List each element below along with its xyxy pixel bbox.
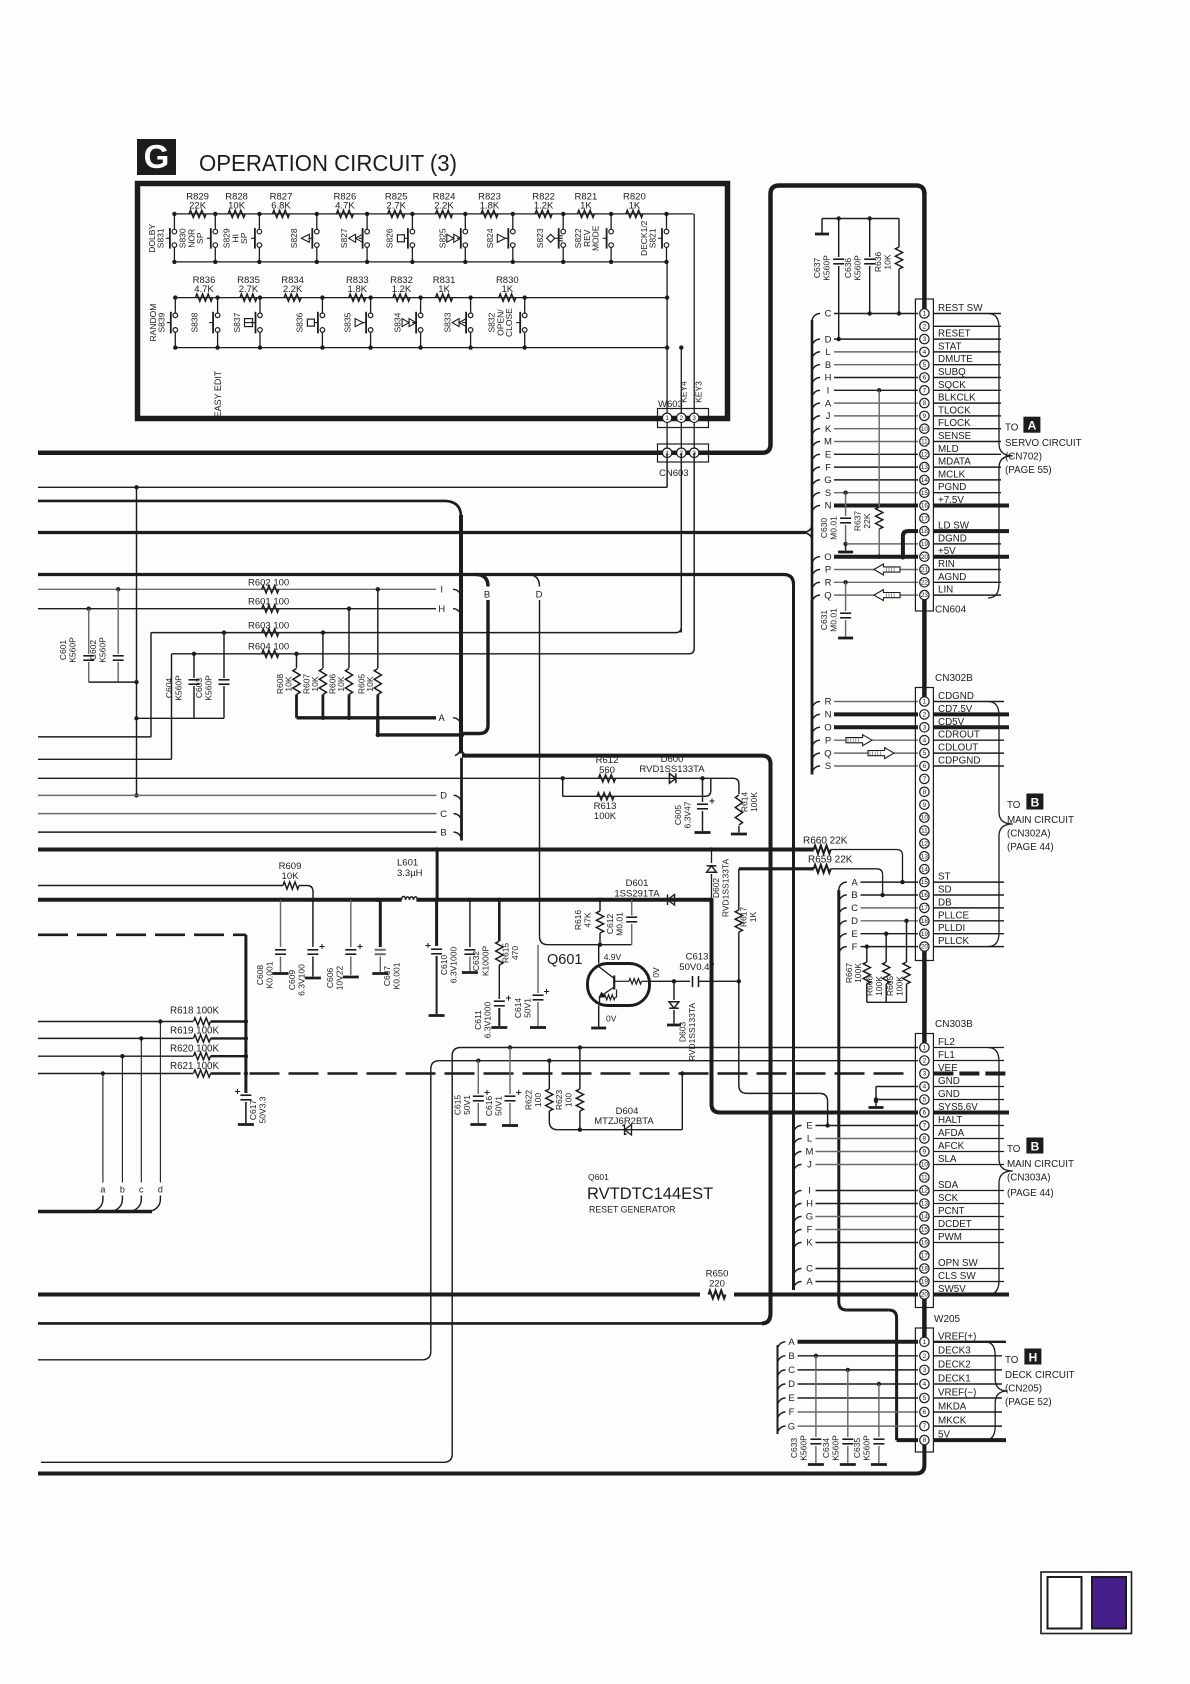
wire CN303B pin6 label SYS5.6V xyxy=(933,1102,1009,1113)
resistor R665 xyxy=(885,921,910,1003)
wire R604 line xyxy=(172,453,695,656)
svg-text:4: 4 xyxy=(923,1381,927,1388)
resistor R613 xyxy=(594,793,617,822)
wire CN303B pin20 label SW5V xyxy=(933,1284,1009,1295)
wire CN604 pin20 +5V thick xyxy=(834,555,918,559)
wire L601 rail thick right xyxy=(278,898,713,902)
wire CN303B pin8 line xyxy=(816,1138,919,1140)
wire C613 to R617 xyxy=(699,979,742,983)
switch S834 xyxy=(393,295,423,349)
resistor R615 xyxy=(496,900,520,965)
svg-text:13: 13 xyxy=(921,853,929,860)
svg-text:PWM: PWM xyxy=(938,1232,962,1243)
svg-text:23: 23 xyxy=(921,592,929,599)
svg-text:R616: R616 xyxy=(573,910,583,931)
svg-text:H: H xyxy=(825,373,832,384)
wire vertical x136 xyxy=(134,487,138,797)
svg-text:R659 22K: R659 22K xyxy=(808,855,853,866)
svg-text:S830: S830 xyxy=(177,228,187,248)
resistor R614 xyxy=(731,784,759,834)
wire CN604 pin16 +7.5V thick xyxy=(834,504,918,508)
switch S828 xyxy=(289,212,319,264)
wire CN303B pin16 label PWM xyxy=(933,1232,1004,1243)
svg-text:3: 3 xyxy=(923,336,927,343)
capacitor C636 xyxy=(843,219,875,316)
wire CN303B pin5 label GND xyxy=(933,1089,1004,1100)
switch S836 xyxy=(294,295,324,349)
resistor R618 xyxy=(38,1006,246,1026)
diode D604 zener xyxy=(594,1106,654,1135)
svg-text:SERVO CIRCUIT: SERVO CIRCUIT xyxy=(1005,438,1082,449)
svg-text:K0.001: K0.001 xyxy=(265,961,275,988)
svg-text:5: 5 xyxy=(923,362,927,369)
wire abcd bundle xyxy=(38,1210,152,1213)
svg-text:SD: SD xyxy=(938,885,952,896)
node B hook W205 xyxy=(778,1351,795,1364)
wire KEY lower return xyxy=(38,1322,762,1325)
wire CN302B pin3 CD5V left thick xyxy=(834,725,918,729)
node D hook CN604 xyxy=(812,334,832,347)
svg-text:R: R xyxy=(825,578,832,589)
svg-text:B: B xyxy=(1031,796,1040,810)
svg-text:6: 6 xyxy=(923,375,927,382)
ground top xyxy=(815,219,829,235)
wire CN303B pin10 label SLA xyxy=(933,1154,1004,1165)
svg-text:6: 6 xyxy=(923,1110,927,1117)
switch S827 xyxy=(339,212,369,264)
svg-text:21: 21 xyxy=(921,567,929,574)
switch S835 xyxy=(343,295,373,349)
svg-text:4.7K: 4.7K xyxy=(335,201,355,212)
svg-text:A: A xyxy=(806,1277,813,1288)
node J hook CN303B xyxy=(794,1160,813,1173)
svg-text:b: b xyxy=(120,1185,125,1195)
capacitor C610 xyxy=(425,850,458,1016)
svg-text:K560P: K560P xyxy=(68,637,78,663)
svg-text:DECK3: DECK3 xyxy=(938,1345,971,1356)
svg-text:R620 100K: R620 100K xyxy=(170,1044,219,1055)
svg-text:(CN302A): (CN302A) xyxy=(1007,829,1051,840)
wire CN604 pin19 line xyxy=(846,543,918,545)
node F hook CN302B lower xyxy=(839,942,858,955)
resistor R619 xyxy=(38,1026,246,1043)
svg-text:PLLCE: PLLCE xyxy=(938,910,970,921)
svg-text:TLOCK: TLOCK xyxy=(938,405,971,416)
svg-text:19: 19 xyxy=(921,931,929,938)
node R hook CN604 xyxy=(812,578,832,591)
svg-text:L601: L601 xyxy=(397,858,418,869)
node B hook CN604 xyxy=(812,360,831,373)
svg-text:C636: C636 xyxy=(843,258,853,279)
node I hook CN604 xyxy=(812,386,829,399)
wire CN303B pin2 label FL1 xyxy=(933,1050,1004,1061)
wire CN604 pin23 label LIN xyxy=(933,585,1001,596)
svg-text:SYS5.6V: SYS5.6V xyxy=(938,1102,978,1113)
label CN604 xyxy=(935,605,967,616)
svg-text:DECK1: DECK1 xyxy=(938,1374,971,1385)
wire CN604 pin22 label AGND xyxy=(933,572,1001,583)
svg-text:R618 100K: R618 100K xyxy=(170,1006,219,1017)
wire CN604 bundle horiz xyxy=(38,527,812,539)
svg-text:D: D xyxy=(788,1379,795,1390)
svg-text:100K: 100K xyxy=(594,811,617,822)
svg-text:I: I xyxy=(808,1186,811,1197)
svg-text:S823: S823 xyxy=(535,228,545,248)
resistor R660 xyxy=(803,836,905,885)
svg-text:MODE: MODE xyxy=(591,225,601,251)
wire CN303B pin3 label VEE xyxy=(933,1063,1009,1074)
svg-text:c: c xyxy=(139,1185,144,1195)
connector W205 xyxy=(915,1328,933,1452)
svg-text:MCLK: MCLK xyxy=(938,469,966,480)
svg-text:M0.01: M0.01 xyxy=(615,912,625,936)
svg-text:R621 100K: R621 100K xyxy=(170,1061,219,1072)
label TO B MAIN CIRCUIT CN302A xyxy=(1007,794,1074,854)
wire row2 bottom rail xyxy=(175,347,667,349)
node N hook CN604 xyxy=(812,501,832,514)
node E hook CN604 xyxy=(812,450,831,463)
wire SYS5.6V vertical thick xyxy=(712,900,721,1113)
svg-text:DGND: DGND xyxy=(938,533,967,544)
node B branch top xyxy=(476,575,490,601)
svg-text:D: D xyxy=(825,334,832,345)
wire FL1 return vertical xyxy=(38,1069,431,1360)
resistor R832 xyxy=(390,275,413,301)
svg-text:1.2K: 1.2K xyxy=(534,201,554,212)
svg-text:4: 4 xyxy=(923,349,927,356)
wire W205 pin8 label 5V xyxy=(933,1430,1006,1441)
diode D600 xyxy=(639,754,705,783)
node A hook CN604 xyxy=(812,398,832,411)
svg-text:18: 18 xyxy=(921,528,929,535)
svg-text:17: 17 xyxy=(921,905,929,912)
svg-text:C634: C634 xyxy=(821,1438,831,1459)
svg-text:0V: 0V xyxy=(606,1014,617,1024)
svg-text:B: B xyxy=(788,1351,794,1362)
resistor R622 xyxy=(524,1061,558,1130)
brace A xyxy=(988,314,1013,599)
svg-text:K560P: K560P xyxy=(204,675,214,701)
svg-text:22K: 22K xyxy=(189,201,207,212)
wire B line lower xyxy=(38,831,437,833)
wire W205 pin1 VREF+ left thick xyxy=(798,1340,919,1344)
wire CN604 spine xyxy=(811,320,814,775)
svg-text:50V1: 50V1 xyxy=(462,1095,472,1115)
wire CN302B pin20 label PLLCK xyxy=(933,936,1004,947)
svg-text:1.8K: 1.8K xyxy=(348,284,368,295)
wire VEE dashed line xyxy=(211,1071,911,1075)
wire CN604 pin9 line xyxy=(834,415,918,417)
wire CN302B pin17 label DB xyxy=(933,897,1004,908)
wire CN302B pin18 PLLCE left xyxy=(861,919,919,923)
capacitor C608 xyxy=(255,900,289,989)
connector CN303B xyxy=(915,1034,933,1308)
capacitor C630 xyxy=(819,493,851,546)
svg-text:(PAGE 44): (PAGE 44) xyxy=(1007,1188,1054,1199)
svg-text:L: L xyxy=(825,347,830,358)
svg-text:1K: 1K xyxy=(629,201,641,212)
svg-text:MKDA: MKDA xyxy=(938,1402,967,1413)
node D hook W205 xyxy=(778,1379,796,1392)
wire CN303B pin14 label PCNT xyxy=(933,1206,1004,1217)
wire CN302B pin5 CDLOUT left xyxy=(834,752,918,754)
node L hook CN604 xyxy=(812,347,831,360)
node P hook CN302B xyxy=(812,735,831,748)
node F hook CN303B xyxy=(794,1225,813,1238)
svg-text:S836: S836 xyxy=(294,312,304,332)
node A hook W205 xyxy=(778,1337,796,1350)
svg-text:S838: S838 xyxy=(190,312,200,332)
svg-text:50V1: 50V1 xyxy=(523,998,533,1018)
svg-text:RVD1SS133TA: RVD1SS133TA xyxy=(639,764,705,775)
switch S824 xyxy=(485,212,515,264)
svg-text:C635: C635 xyxy=(852,1438,862,1459)
capacitor C634 xyxy=(821,1370,856,1465)
svg-text:CD5V: CD5V xyxy=(938,717,965,728)
svg-text:DMUTE: DMUTE xyxy=(938,354,973,365)
node K hook CN604 xyxy=(812,424,832,437)
wire C603 C604 bottom rail xyxy=(137,717,225,719)
svg-text:2.7K: 2.7K xyxy=(386,201,406,212)
svg-text:100: 100 xyxy=(533,1093,543,1107)
svg-text:2: 2 xyxy=(923,1058,927,1065)
brace H W205 xyxy=(985,1342,1008,1440)
wire R block vertical thick xyxy=(244,935,248,1076)
svg-text:C: C xyxy=(851,903,858,914)
svg-text:12: 12 xyxy=(921,1188,929,1195)
resistor R605 xyxy=(356,589,381,718)
svg-text:TO: TO xyxy=(1005,423,1019,434)
svg-text:DECK CIRCUIT: DECK CIRCUIT xyxy=(1005,1370,1075,1381)
svg-text:E: E xyxy=(825,450,831,461)
node M hook CN303B xyxy=(794,1147,814,1160)
wire CN303B pin18 label OPN SW xyxy=(933,1258,1004,1269)
svg-text:K: K xyxy=(825,424,832,435)
switch S838 xyxy=(190,295,220,349)
svg-text:CN302B: CN302B xyxy=(935,673,973,684)
resistor R636 xyxy=(873,219,903,316)
node a drop xyxy=(91,1074,106,1212)
svg-text:C611: C611 xyxy=(473,1010,483,1030)
wire CN303B to W205 thick xyxy=(922,1299,927,1342)
node D hook lower xyxy=(440,791,461,804)
svg-text:Q: Q xyxy=(824,590,831,601)
node H hook xyxy=(438,604,461,617)
wire CN603 KEY3 net thick xyxy=(38,186,924,453)
svg-text:11: 11 xyxy=(921,439,928,446)
svg-text:R604 100: R604 100 xyxy=(248,642,289,653)
svg-text:AFCK: AFCK xyxy=(938,1141,965,1152)
wire CN302B pin4 CDROUT left xyxy=(834,739,918,741)
svg-text:SUBQ: SUBQ xyxy=(938,367,966,378)
svg-text:4: 4 xyxy=(923,1084,927,1091)
wire net B vertical xyxy=(462,600,489,734)
svg-text:C608: C608 xyxy=(255,965,265,986)
wire W205 pin6 MKDA left xyxy=(798,1411,919,1413)
svg-text:S834: S834 xyxy=(393,312,403,332)
wire CN604 pin15 line S xyxy=(834,491,918,495)
svg-text:TO: TO xyxy=(1007,800,1021,811)
svg-text:6.8K: 6.8K xyxy=(271,201,291,212)
svg-text:20: 20 xyxy=(921,554,929,561)
node I hook xyxy=(440,585,461,598)
svg-text:22: 22 xyxy=(921,579,929,586)
wire W205 pin6 label MKDA xyxy=(933,1402,1002,1413)
svg-text:14: 14 xyxy=(921,477,929,484)
svg-text:C612: C612 xyxy=(605,914,615,935)
svg-text:B: B xyxy=(825,360,831,371)
wire CN604 pin14 line xyxy=(834,479,918,481)
svg-text:BLKCLK: BLKCLK xyxy=(938,393,976,404)
arrow RIN xyxy=(874,564,900,575)
svg-text:C632: C632 xyxy=(471,951,481,972)
wire CN302B pin5 label CDLOUT xyxy=(933,743,1004,754)
wire C601 C602 bottom rail xyxy=(89,680,139,684)
resistor R616 xyxy=(573,900,604,945)
switch S823 xyxy=(535,212,565,264)
node E hook CN302B lower xyxy=(839,929,858,942)
svg-text:C: C xyxy=(788,1365,795,1376)
svg-text:17: 17 xyxy=(921,1253,929,1260)
wire CN302B pin15 ST left xyxy=(861,881,919,883)
svg-text:A: A xyxy=(825,398,832,409)
svg-text:CDLOUT: CDLOUT xyxy=(938,743,978,754)
svg-text:R601 100: R601 100 xyxy=(248,597,289,608)
svg-text:K560P: K560P xyxy=(799,1435,809,1461)
resistor R821 xyxy=(575,192,598,218)
wire CN303B pin6 SYS5.6V thick xyxy=(720,1111,918,1115)
svg-text:20: 20 xyxy=(921,944,929,951)
label KEY3 xyxy=(694,381,704,403)
svg-text:C614: C614 xyxy=(513,998,523,1019)
connector W603 xyxy=(658,409,709,428)
switch S830 xyxy=(177,212,217,264)
svg-text:15: 15 xyxy=(921,879,929,886)
svg-text:E: E xyxy=(851,929,857,940)
resistor R606 xyxy=(328,609,353,718)
svg-text:SCK: SCK xyxy=(938,1193,959,1204)
wire W205 pin4 DECK1 left xyxy=(798,1382,919,1386)
label CN603 xyxy=(659,468,689,479)
svg-text:R615: R615 xyxy=(501,943,511,964)
resistor R827 xyxy=(270,192,293,218)
resistor R826 xyxy=(334,192,357,218)
connector CN604 xyxy=(915,299,933,611)
svg-text:G: G xyxy=(806,1212,813,1223)
svg-text:5: 5 xyxy=(923,750,927,757)
svg-text:1K: 1K xyxy=(501,284,513,295)
svg-text:+5V: +5V xyxy=(938,546,956,557)
node c drop xyxy=(129,1038,144,1211)
wire CN302B pin4 label CDROUT xyxy=(933,730,1004,741)
wire CN303B pin15 label DCDET xyxy=(933,1219,1004,1230)
wire W205 pin5 label VREF(−) xyxy=(933,1388,1002,1399)
svg-text:A: A xyxy=(788,1337,795,1348)
wire CN303B pin18 line xyxy=(816,1268,919,1270)
wire CN604 pin15 label PGND xyxy=(933,482,1001,493)
svg-text:B: B xyxy=(1031,1140,1040,1154)
capacitor C633 xyxy=(789,1356,824,1465)
svg-text:I: I xyxy=(827,386,830,397)
svg-text:R617: R617 xyxy=(739,907,749,928)
svg-text:S831: S831 xyxy=(155,228,165,248)
svg-text:1K: 1K xyxy=(438,284,450,295)
ground C630 xyxy=(838,544,853,552)
wire CN303B pin13 line xyxy=(816,1203,919,1205)
svg-text:1.2K: 1.2K xyxy=(392,284,412,295)
svg-text:AFDA: AFDA xyxy=(938,1128,965,1139)
wire W205 pin7 label MKCK xyxy=(933,1416,1002,1427)
node A hook CN303B xyxy=(794,1277,814,1290)
svg-text:SENSE: SENSE xyxy=(938,431,972,442)
node F hook CN604 xyxy=(812,462,831,475)
svg-text:2: 2 xyxy=(923,712,927,719)
svg-text:C609: C609 xyxy=(287,970,297,991)
wire CN604 pin5 line xyxy=(834,364,918,366)
svg-text:7: 7 xyxy=(923,387,927,394)
wire CN604 pin12 line xyxy=(834,453,918,455)
svg-text:B: B xyxy=(484,590,490,601)
svg-text:1: 1 xyxy=(923,1339,927,1346)
svg-text:F: F xyxy=(789,1407,795,1418)
resistor R833 xyxy=(346,275,369,301)
wire CN302B to CN303B thick xyxy=(922,951,927,1048)
svg-text:K: K xyxy=(806,1238,813,1249)
label CN302B xyxy=(935,673,973,684)
switch S839 xyxy=(148,295,178,349)
svg-text:HALT: HALT xyxy=(938,1115,962,1126)
node E hook W205 xyxy=(778,1393,795,1406)
svg-text:C617: C617 xyxy=(248,1100,258,1121)
svg-text:100: 100 xyxy=(564,1093,574,1107)
svg-text:C633: C633 xyxy=(789,1438,799,1459)
svg-text:CLS SW: CLS SW xyxy=(938,1271,976,1282)
capacitor C615 xyxy=(453,1061,490,1125)
wire CN302B pin19 PLLDI left xyxy=(861,932,919,936)
svg-text:6.3V1000: 6.3V1000 xyxy=(449,947,459,984)
svg-text:3.3µH: 3.3µH xyxy=(397,868,423,879)
svg-text:15: 15 xyxy=(921,1227,929,1234)
svg-text:S829: S829 xyxy=(221,228,231,248)
wire CN604 pin1 line xyxy=(834,313,918,315)
svg-text:SQCK: SQCK xyxy=(938,380,966,391)
node E hook CN303B xyxy=(794,1121,813,1134)
svg-text:KEY3: KEY3 xyxy=(694,381,704,403)
svg-text:R637: R637 xyxy=(853,511,863,532)
node M hook CN604 xyxy=(812,437,832,450)
page label G xyxy=(137,138,176,175)
wire top cable bundle vertical xyxy=(455,515,467,841)
node C hook CN302B lower xyxy=(839,903,858,916)
resistor R667 xyxy=(844,947,870,1003)
wire CN303B pin5 GND left xyxy=(876,1099,918,1101)
resistor R666 xyxy=(865,934,890,1003)
node d drop xyxy=(148,1022,163,1212)
resistor R637 xyxy=(853,390,883,559)
svg-text:C602: C602 xyxy=(88,640,98,661)
svg-text:H: H xyxy=(1029,1351,1038,1365)
svg-text:S821: S821 xyxy=(648,228,658,248)
svg-text:J: J xyxy=(807,1160,812,1171)
wire R659 line xyxy=(739,867,814,870)
svg-text:4.7K: 4.7K xyxy=(194,284,214,295)
svg-text:14: 14 xyxy=(921,866,929,873)
wire CN303B pin10 line xyxy=(816,1164,919,1166)
svg-text:L: L xyxy=(807,1134,812,1145)
svg-text:50V1: 50V1 xyxy=(494,1096,504,1116)
node P hook CN604 xyxy=(812,565,831,578)
svg-text:CDROUT: CDROUT xyxy=(938,730,980,741)
